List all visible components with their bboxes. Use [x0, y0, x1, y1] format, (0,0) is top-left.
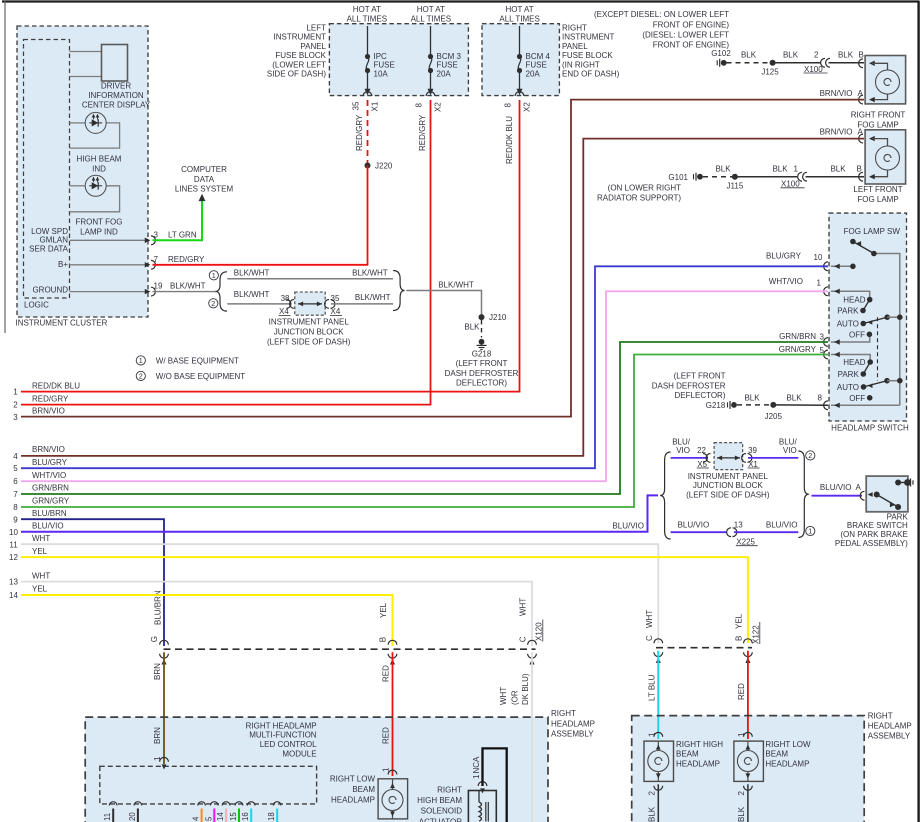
svg-text:RED: RED: [382, 727, 391, 744]
headlamp switch internal bus: [874, 254, 900, 406]
svg-text:FUSE BLOCK: FUSE BLOCK: [562, 51, 613, 60]
right front fog lamp: [865, 56, 906, 104]
svg-text:PARK: PARK: [837, 307, 859, 316]
svg-text:BRN/VIO: BRN/VIO: [32, 445, 65, 454]
svg-text:LOW SPD: LOW SPD: [31, 227, 68, 236]
computer data lines arrow: [199, 194, 206, 201]
svg-text:PARK: PARK: [838, 370, 860, 379]
svg-text:BRAKE SWITCH: BRAKE SWITCH: [847, 521, 908, 530]
svg-text:X120: X120: [535, 622, 544, 641]
svg-text:HEADLAMP: HEADLAMP: [551, 719, 595, 728]
wire RED/DK BLU from BCM4 fuse (circuit 1): [21, 100, 520, 392]
svg-text:RIGHT FRONT: RIGHT FRONT: [851, 111, 906, 120]
svg-text:INSTRUMENT CLUSTER: INSTRUMENT CLUSTER: [16, 319, 108, 328]
svg-text:INSTRUMENT: INSTRUMENT: [562, 33, 615, 42]
svg-text:19: 19: [154, 281, 163, 290]
svg-text:BLK: BLK: [647, 806, 656, 822]
svg-text:C: C: [519, 636, 528, 642]
svg-text:WHT: WHT: [519, 598, 528, 616]
svg-text:G102: G102: [711, 49, 731, 58]
svg-text:LINES SYSTEM: LINES SYSTEM: [175, 185, 234, 194]
park contact 1: [860, 308, 866, 314]
svg-text:5: 5: [13, 464, 18, 473]
svg-text:ASSEMBLY: ASSEMBLY: [551, 730, 594, 739]
svg-text:39: 39: [748, 446, 757, 455]
svg-text:GRN/GRY: GRN/GRY: [779, 345, 817, 354]
svg-text:BLU/VIO: BLU/VIO: [820, 483, 852, 492]
wire BLK J115 to X100: [735, 176, 797, 178]
svg-text:14: 14: [9, 591, 18, 600]
instrument cluster box: [17, 26, 148, 317]
svg-text:RIGHT: RIGHT: [868, 712, 893, 721]
svg-text:BLK: BLK: [741, 51, 757, 60]
wire BLK J125 to X100: [773, 62, 821, 64]
wire BLK/WHT to J210: [406, 291, 481, 315]
module pin 11: [109, 802, 117, 806]
svg-text:10A: 10A: [374, 69, 389, 78]
svg-text:(ON PARK BRAKE: (ON PARK BRAKE: [840, 530, 907, 539]
svg-text:1: 1: [212, 271, 216, 280]
svg-text:DASH DEFROSTER: DASH DEFROSTER: [445, 369, 519, 378]
svg-text:14: 14: [216, 812, 225, 821]
front fog lamp indicator LED: [85, 175, 106, 196]
svg-text:RED/DK BLU: RED/DK BLU: [505, 116, 514, 164]
svg-text:PANEL: PANEL: [300, 42, 326, 51]
svg-text:IND: IND: [92, 165, 106, 174]
svg-text:HEADLAMP: HEADLAMP: [331, 796, 375, 805]
svg-text:X122: X122: [752, 625, 761, 644]
svg-text:LT GRN: LT GRN: [168, 231, 197, 240]
svg-text:B: B: [735, 636, 744, 641]
svg-text:G218: G218: [706, 401, 726, 410]
wire loop front fog lamp indicator: [70, 185, 86, 187]
module pin 15: [235, 802, 243, 806]
svg-text:(LEFT FRONT: (LEFT FRONT: [456, 359, 508, 368]
module pin 14: [222, 802, 230, 806]
svg-text:MODULE: MODULE: [282, 749, 316, 758]
svg-text:B+: B+: [58, 260, 68, 269]
svg-text:35: 35: [331, 294, 340, 303]
svg-text:X225: X225: [736, 538, 755, 547]
svg-text:YEL: YEL: [32, 547, 48, 556]
svg-text:(IN RIGHT: (IN RIGHT: [562, 60, 600, 69]
svg-text:LAMP IND: LAMP IND: [80, 228, 118, 237]
svg-text:SIDE OF DASH): SIDE OF DASH): [267, 70, 326, 79]
svg-text:35: 35: [352, 101, 361, 110]
svg-text:MULTI-FUNCTION: MULTI-FUNCTION: [249, 731, 317, 740]
right low beam headlamp: [744, 732, 753, 736]
legend w/ base equipment: [136, 356, 145, 365]
svg-text:W/ BASE EQUIPMENT: W/ BASE EQUIPMENT: [156, 357, 239, 366]
ground G218 (left front dash defroster deflector): [479, 339, 485, 345]
svg-text:10: 10: [814, 253, 823, 262]
svg-text:20A: 20A: [526, 69, 541, 78]
svg-text:DASH DEFROSTER: DASH DEFROSTER: [652, 381, 726, 390]
svg-text:BRN: BRN: [153, 727, 162, 744]
svg-text:JUNCTION BLOCK: JUNCTION BLOCK: [693, 481, 763, 490]
svg-text:AUTO: AUTO: [837, 320, 859, 329]
module pin 20: [134, 802, 142, 806]
svg-text:RIGHT HEADLAMP: RIGHT HEADLAMP: [246, 721, 317, 730]
wire RED/GRY from J220 to B+ pin 7: [153, 166, 368, 265]
brace right of BLK/WHT branches: [393, 271, 405, 311]
svg-text:20A: 20A: [437, 69, 452, 78]
svg-text:A: A: [858, 89, 864, 98]
svg-text:G: G: [150, 636, 159, 642]
svg-text:38: 38: [281, 294, 290, 303]
wire BLK G218 to J205: [737, 404, 770, 406]
svg-text:GMLAN: GMLAN: [40, 236, 69, 245]
LED control module box: [100, 766, 317, 804]
svg-text:X2: X2: [523, 102, 532, 112]
svg-text:RIGHT: RIGHT: [562, 23, 587, 32]
svg-text:ALL TIMES: ALL TIMES: [347, 14, 387, 23]
wire BLK/WHT branch 1 (w/ base equipment): [227, 278, 393, 280]
svg-text:5: 5: [204, 816, 213, 821]
svg-text:1: 1: [139, 356, 143, 365]
svg-text:RADIATOR SUPPORT): RADIATOR SUPPORT): [597, 194, 681, 203]
svg-text:BRN: BRN: [153, 663, 162, 680]
svg-text:BLK/WHT: BLK/WHT: [234, 290, 270, 299]
wire BLK G102 to J125: [727, 62, 771, 64]
connector 35 X4: [325, 300, 329, 309]
svg-text:CENTER DISPLAY: CENTER DISPLAY: [82, 100, 151, 109]
svg-text:DATA: DATA: [194, 175, 215, 184]
legend w/o base equipment: [136, 371, 145, 380]
fuse IPC FUSE 10A: [367, 26, 369, 56]
svg-text:RED: RED: [737, 683, 746, 700]
svg-text:6: 6: [13, 477, 18, 486]
svg-text:INFORMATION: INFORMATION: [88, 91, 144, 100]
svg-text:A: A: [858, 128, 864, 137]
svg-text:LOGIC: LOGIC: [24, 301, 49, 310]
svg-text:(ON LOWER RIGHT: (ON LOWER RIGHT: [608, 183, 681, 192]
instrument panel junction block (BLU/VIO): [714, 443, 743, 470]
svg-text:COMPUTER: COMPUTER: [181, 165, 227, 174]
headlamp switch pin 3 to OFF contact: [831, 337, 870, 342]
module pin 4: [198, 802, 206, 806]
svg-text:WHT: WHT: [499, 687, 508, 705]
svg-text:X100: X100: [804, 65, 823, 74]
svg-text:PANEL: PANEL: [562, 42, 588, 51]
svg-text:FOG LAMP SW: FOG LAMP SW: [844, 227, 901, 236]
svg-text:LT BLU: LT BLU: [647, 674, 656, 701]
svg-text:ACTUATOR: ACTUATOR: [419, 817, 462, 822]
svg-text:RIGHT: RIGHT: [551, 709, 576, 718]
wire LT GRN to computer data lines: [153, 200, 203, 240]
svg-text:FUSE: FUSE: [437, 61, 458, 70]
svg-text:X1: X1: [371, 101, 380, 111]
svg-text:HIGH BEAM: HIGH BEAM: [77, 155, 122, 164]
wire BLU/VIO branch upper to connector 22 X5: [671, 457, 707, 459]
wire BLK to ground G218: [481, 320, 483, 338]
svg-text:J220: J220: [375, 162, 393, 171]
svg-text:WHT/VIO: WHT/VIO: [769, 277, 803, 286]
svg-text:3: 3: [820, 333, 825, 342]
svg-text:X2: X2: [434, 102, 443, 112]
svg-text:RIGHT HIGH: RIGHT HIGH: [676, 740, 723, 749]
svg-text:BLU/VIO: BLU/VIO: [678, 521, 710, 530]
connector X122: [656, 647, 752, 649]
page top border: [2, 0, 920, 2]
svg-text:RIGHT: RIGHT: [437, 786, 462, 795]
svg-text:BLU/BRN: BLU/BRN: [32, 509, 67, 518]
svg-text:RIGHT LOW: RIGHT LOW: [330, 775, 376, 784]
headlamp switch pin 10 contact: [831, 265, 853, 267]
wire to driver information center display: [70, 51, 102, 53]
svg-text:RIGHT LOW: RIGHT LOW: [765, 740, 811, 749]
svg-text:J210: J210: [489, 313, 507, 322]
svg-text:GRN/BRN: GRN/BRN: [32, 484, 69, 493]
svg-text:FRONT FOG: FRONT FOG: [76, 218, 123, 227]
svg-text:BLK: BLK: [838, 51, 854, 60]
svg-text:2: 2: [211, 299, 215, 308]
svg-text:G218: G218: [472, 350, 492, 359]
wire BLU/VIO branch lower to X225: [671, 531, 727, 533]
svg-text:ASSEMBLY: ASSEMBLY: [868, 731, 911, 740]
svg-text:(LEFT FRONT: (LEFT FRONT: [674, 372, 726, 381]
svg-text:B: B: [379, 637, 388, 642]
svg-text:ALL TIMES: ALL TIMES: [411, 14, 451, 23]
svg-text:W/O BASE EQUIPMENT: W/O BASE EQUIPMENT: [156, 372, 245, 381]
left instrument panel fuse block: [329, 24, 468, 96]
connector 39 X1: [742, 454, 746, 463]
svg-text:INSTRUMENT PANEL: INSTRUMENT PANEL: [269, 317, 350, 326]
splice J125: [770, 60, 776, 66]
svg-text:GROUND: GROUND: [32, 286, 68, 295]
wire loop high beam indicator: [70, 122, 86, 124]
auto contact 2 with blade to pivot: [861, 384, 867, 390]
wire BLK X100 to left front fog lamp pin B: [806, 176, 865, 178]
svg-text:LEFT: LEFT: [306, 23, 326, 32]
svg-text:BEAM: BEAM: [352, 785, 375, 794]
page right border: [917, 1, 919, 822]
svg-text:HIGH BEAM: HIGH BEAM: [417, 796, 462, 805]
svg-text:BLK: BLK: [464, 322, 480, 331]
right headlamp assembly box (right): [632, 716, 865, 822]
left front fog lamp: [865, 130, 906, 184]
brace left of BLU/VIO branches: [660, 452, 671, 539]
svg-text:X100: X100: [781, 180, 800, 189]
module pin 16: [247, 802, 255, 806]
pin 19 wire (ground): [70, 291, 147, 293]
svg-text:3: 3: [154, 231, 159, 240]
svg-text:HOT AT: HOT AT: [506, 5, 534, 14]
svg-text:2: 2: [808, 451, 812, 460]
svg-text:11: 11: [9, 540, 18, 549]
svg-text:DEFLECTOR): DEFLECTOR): [675, 391, 726, 400]
svg-text:A: A: [856, 483, 862, 492]
svg-text:X4: X4: [279, 307, 289, 316]
svg-text:INSTRUMENT PANEL: INSTRUMENT PANEL: [688, 472, 769, 481]
svg-text:HOT AT: HOT AT: [417, 5, 445, 14]
svg-text:BLK/WHT: BLK/WHT: [234, 268, 270, 277]
svg-text:DEFLECTOR): DEFLECTOR): [456, 379, 507, 388]
wire RED/GRY dashed from IPC fuse: [367, 100, 369, 163]
svg-text:YEL: YEL: [32, 585, 48, 594]
splice J220: [365, 163, 371, 169]
svg-text:HEAD: HEAD: [843, 296, 865, 305]
wire RED X122 to right low beam headlamp: [747, 651, 749, 739]
splice J115: [732, 174, 738, 180]
svg-text:2: 2: [139, 372, 143, 381]
svg-text:PEDAL ASSEMBLY): PEDAL ASSEMBLY): [835, 539, 908, 548]
svg-text:BRN/VIO: BRN/VIO: [32, 406, 65, 415]
svg-text:X4: X4: [331, 307, 341, 316]
off contact 2: [867, 395, 873, 401]
svg-text:FOG LAMP: FOG LAMP: [857, 195, 898, 204]
svg-text:RED/GRY: RED/GRY: [355, 114, 364, 151]
svg-text:WHT: WHT: [32, 534, 50, 543]
brace right of BLU/VIO branches: [798, 451, 809, 538]
wire BLK J205 to headlamp switch pin 8: [773, 404, 828, 406]
svg-text:2: 2: [814, 51, 819, 60]
wire BLK G101 to J115: [703, 176, 732, 178]
svg-text:PARK: PARK: [887, 512, 909, 521]
svg-text:VIO: VIO: [676, 446, 690, 455]
headlamp switch pin 5 to HEAD contact 2: [831, 355, 870, 360]
svg-text:C: C: [645, 635, 654, 641]
wire BRN X120 to LED module pin 1: [163, 652, 165, 764]
park contact 2: [861, 371, 867, 377]
svg-text:BLK: BLK: [715, 164, 731, 173]
svg-text:VIO: VIO: [783, 446, 797, 455]
svg-text:FUSE BLOCK: FUSE BLOCK: [275, 51, 326, 60]
svg-text:(OR: (OR: [511, 690, 520, 705]
svg-text:15: 15: [229, 812, 238, 821]
svg-text:WHT: WHT: [645, 610, 654, 628]
svg-text:G101: G101: [668, 173, 688, 182]
splice J205: [770, 402, 776, 408]
svg-text:BLK: BLK: [786, 393, 802, 402]
svg-text:(LEFT SIDE OF DASH): (LEFT SIDE OF DASH): [686, 490, 770, 499]
svg-text:RED/DK BLU: RED/DK BLU: [32, 382, 80, 391]
chassis ground at park brake switch: [910, 479, 912, 487]
svg-text:HOT AT: HOT AT: [353, 5, 381, 14]
fuse BCM 4 FUSE 20A: [519, 26, 521, 56]
module pin 5: [211, 802, 219, 806]
svg-text:BRN/VIO: BRN/VIO: [820, 128, 853, 137]
svg-text:RED/GRY: RED/GRY: [418, 114, 427, 151]
svg-text:LED CONTROL: LED CONTROL: [260, 740, 317, 749]
headlamp switch pin 8 common wire: [831, 404, 900, 406]
svg-text:1: 1: [13, 388, 18, 397]
svg-text:YEL: YEL: [379, 602, 388, 618]
svg-text:BEAM: BEAM: [676, 750, 699, 759]
svg-text:1: 1: [817, 278, 822, 287]
svg-text:18: 18: [267, 812, 276, 821]
driver information center display: [102, 45, 128, 82]
svg-text:J205: J205: [765, 412, 783, 421]
right instrument panel fuse block: [482, 24, 559, 96]
high beam indicator LED: [85, 112, 106, 133]
svg-text:HEADLAMP: HEADLAMP: [676, 760, 720, 769]
svg-text:RED/GRY: RED/GRY: [168, 255, 205, 264]
svg-text:10: 10: [9, 528, 18, 537]
right headlamp assembly fill (right): [632, 716, 865, 822]
headlamp switch box: [829, 213, 907, 421]
svg-text:B: B: [859, 51, 864, 60]
wire BLK/WHT from junction block to brace: [331, 303, 393, 305]
svg-text:INSTRUMENT: INSTRUMENT: [274, 33, 327, 42]
svg-text:FRONT OF ENGINE): FRONT OF ENGINE): [653, 20, 730, 29]
wire LT BLU X122 to right high beam headlamp: [657, 651, 659, 739]
svg-text:B: B: [857, 164, 862, 173]
svg-text:7: 7: [154, 255, 159, 264]
svg-text:AUTO: AUTO: [837, 383, 859, 392]
wire BLK below right high beam headlamp: [657, 784, 659, 822]
svg-text:X1: X1: [748, 460, 758, 469]
wire BLK/WHT branch 2 to junction block: [227, 303, 291, 305]
logic inner box: [24, 40, 70, 299]
svg-text:1: 1: [808, 527, 812, 536]
splice J210: [479, 314, 485, 320]
svg-text:RED/GRY: RED/GRY: [32, 395, 69, 404]
svg-text:BLK: BLK: [783, 51, 799, 60]
svg-text:X5: X5: [697, 460, 707, 469]
fuse BCM 3 FUSE 20A: [430, 26, 432, 56]
fog lamp switch blade: [850, 239, 856, 245]
svg-text:BLK: BLK: [737, 806, 746, 822]
svg-text:8: 8: [504, 103, 513, 108]
wire RED X120 to right low beam headlamp: [392, 652, 394, 776]
svg-text:OFF: OFF: [849, 330, 865, 339]
svg-text:8: 8: [13, 503, 18, 512]
svg-text:NCA: NCA: [472, 756, 481, 774]
pin 35 X1 below IPC fuse: [363, 92, 372, 96]
right headlamp assembly box (left): [85, 717, 548, 822]
module pin 1: [160, 757, 169, 761]
connector X120: [164, 648, 536, 650]
svg-text:HEAD: HEAD: [843, 358, 865, 367]
svg-text:BLK/WHT: BLK/WHT: [170, 281, 206, 290]
svg-text:4: 4: [13, 452, 18, 461]
svg-text:FUSE: FUSE: [526, 61, 547, 70]
svg-text:BLK/WHT: BLK/WHT: [438, 280, 474, 289]
svg-text:HEADLAMP: HEADLAMP: [868, 722, 912, 731]
svg-text:(DIESEL: LOWER LEFT: (DIESEL: LOWER LEFT: [642, 30, 729, 39]
svg-text:2: 2: [647, 791, 656, 796]
wire BLU/VIO to park brake switch pin A: [812, 495, 863, 497]
svg-text:YEL: YEL: [735, 613, 744, 629]
svg-text:IPC: IPC: [374, 52, 388, 61]
wire BLU/VIO from junction block to brace: [748, 457, 798, 459]
svg-text:HEADLAMP: HEADLAMP: [765, 760, 809, 769]
svg-text:(LEFT SIDE OF DASH): (LEFT SIDE OF DASH): [267, 338, 351, 347]
svg-text:FUSE: FUSE: [374, 61, 395, 70]
svg-text:SOLENOID: SOLENOID: [421, 807, 463, 816]
wire NCA loop from solenoid pin 1: [478, 782, 487, 786]
svg-text:ALL TIMES: ALL TIMES: [499, 14, 539, 23]
svg-text:J115: J115: [727, 181, 744, 190]
pin 3 wire (ser data): [70, 239, 147, 241]
wire BLK below right low beam headlamp: [747, 784, 749, 822]
svg-text:BLU/VIO: BLU/VIO: [766, 521, 798, 530]
module pin 18: [273, 802, 281, 806]
svg-text:WHT/VIO: WHT/VIO: [32, 471, 66, 480]
wire BLU/VIO from X225 to brace: [734, 531, 798, 533]
svg-text:4: 4: [192, 816, 201, 821]
headlamp switch pin 1 to HEAD contact: [831, 291, 870, 297]
wire WHT (OR DK BLU) X120 pin C down: [531, 652, 533, 822]
park brake switch: [866, 476, 908, 512]
svg-text:GRN/GRY: GRN/GRY: [32, 497, 70, 506]
svg-text:J125: J125: [761, 68, 779, 77]
svg-text:DRIVER: DRIVER: [101, 82, 131, 91]
svg-text:(EXCEPT DIESEL: ON LOWER LEFT: (EXCEPT DIESEL: ON LOWER LEFT: [594, 10, 729, 19]
svg-text:GRN/BRN: GRN/BRN: [779, 332, 816, 341]
svg-text:13: 13: [9, 578, 18, 587]
